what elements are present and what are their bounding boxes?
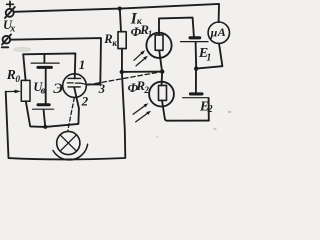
battery Ub long plate top xyxy=(31,62,59,64)
battery E1 long plate xyxy=(181,41,209,43)
node B xyxy=(120,70,124,74)
battery E1 short plate xyxy=(190,36,200,39)
tube anode bar xyxy=(68,77,81,79)
wire Rk top lead xyxy=(120,10,121,32)
wiper arrow R0 xyxy=(6,90,21,94)
label FR1 xyxy=(131,22,153,39)
svg-text:0: 0 xyxy=(15,75,20,85)
label FR2 xyxy=(128,78,150,95)
lamp xyxy=(57,131,80,154)
wire E2 top lead xyxy=(195,69,197,93)
reflector arc xyxy=(53,144,88,160)
photoresistor FR1 xyxy=(146,33,171,58)
svg-text:1: 1 xyxy=(206,53,211,64)
wire minus rail to grid xyxy=(10,38,101,84)
resistor Rk xyxy=(118,32,126,49)
wire lower-left top line and tube anode lead xyxy=(23,53,75,80)
wire top rail xyxy=(14,4,219,22)
label pin 1 xyxy=(79,57,86,72)
label R0 xyxy=(6,67,21,85)
wire E2 right drop xyxy=(208,98,210,120)
terminal X1 (+) xyxy=(5,7,15,18)
svg-text:μ: μ xyxy=(210,26,218,40)
svg-text:А: А xyxy=(217,25,226,39)
svg-text:Э: Э xyxy=(53,81,63,97)
wire FR1 bottom lead xyxy=(159,50,162,71)
label Ux xyxy=(3,18,15,35)
wire Ub top lead xyxy=(43,54,45,62)
label 3 (grid pin) xyxy=(98,82,105,96)
node top rail / Rk junction xyxy=(118,7,122,11)
label Rk xyxy=(103,32,117,48)
wire FR2 top lead xyxy=(161,72,164,86)
wire Ub bottom lead xyxy=(44,110,46,127)
svg-text:1: 1 xyxy=(79,57,86,72)
node filament xyxy=(43,125,47,129)
svg-text:R: R xyxy=(6,67,16,82)
tube grid bar xyxy=(67,82,80,84)
microammeter uA xyxy=(208,22,229,43)
wire Rk bottom lead xyxy=(121,49,123,72)
svg-text:2: 2 xyxy=(143,85,149,95)
label E2 xyxy=(199,99,213,115)
wire uA bottom lead xyxy=(196,43,222,68)
label E (galvanometer) xyxy=(53,81,63,97)
svg-text:к: к xyxy=(112,38,117,48)
wire FR2 bottom lead and link to E2 xyxy=(162,100,209,120)
label pin 2 xyxy=(81,93,89,108)
tube grid exit xyxy=(80,83,86,84)
svg-text:в: в xyxy=(41,85,46,96)
node A xyxy=(160,69,164,73)
tube cathode bar xyxy=(68,86,80,88)
battery E2 long plate xyxy=(183,97,209,99)
svg-text:x: x xyxy=(9,24,15,35)
svg-text:2: 2 xyxy=(207,104,213,115)
light arrows FR1 xyxy=(134,50,148,66)
terminal X2 (-) xyxy=(2,34,11,44)
wire R0 bottom lead, filament wire, cathode lead xyxy=(26,87,79,127)
label uA xyxy=(210,25,226,40)
galvanometer tube xyxy=(63,74,87,98)
label Ub xyxy=(33,80,45,96)
wire E1 bottom lead xyxy=(195,42,198,68)
svg-text:2: 2 xyxy=(81,93,89,108)
battery Ub long plate bottom xyxy=(33,108,54,110)
rheostat R0 xyxy=(21,80,30,101)
battery Ub short plate bottom xyxy=(38,103,49,106)
label E1 xyxy=(198,46,212,64)
battery E2 short plate xyxy=(190,92,202,95)
wire FR1 top lead and E1 top link xyxy=(159,18,194,37)
svg-text:R: R xyxy=(103,32,112,46)
wire node B to node A xyxy=(122,71,162,73)
svg-text:1: 1 xyxy=(148,29,153,39)
node E1/E2/uA xyxy=(194,66,198,70)
terminal plus sign xyxy=(7,1,14,7)
wire Ub inter-cell lead xyxy=(45,69,47,104)
terminal minus sign xyxy=(2,46,8,48)
dashed light beam to FR xyxy=(88,72,161,85)
battery Ub short plate top xyxy=(38,66,52,69)
light arrows FR2 xyxy=(133,103,151,122)
svg-text:3: 3 xyxy=(98,82,105,96)
dashed light beam lamp to mirror xyxy=(68,98,75,131)
wire left rail and bottom rail xyxy=(6,72,126,159)
photoresistor FR2 xyxy=(149,82,174,107)
label Ik xyxy=(130,10,143,27)
